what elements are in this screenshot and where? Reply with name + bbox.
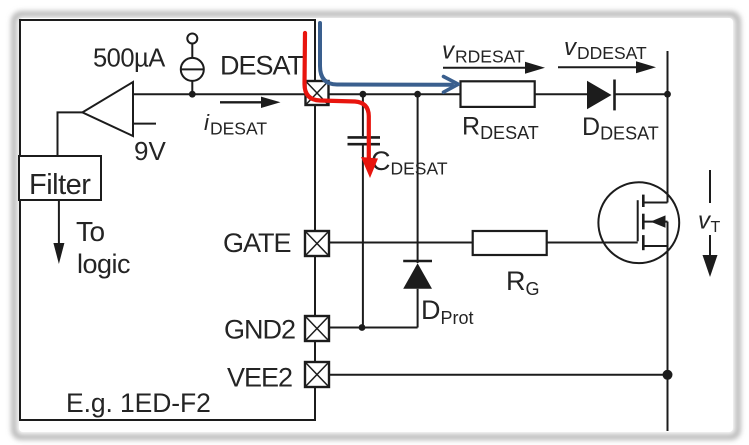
svg-text:500µA: 500µA bbox=[93, 45, 165, 73]
annotation red arrow bbox=[305, 33, 369, 160]
current source 500uA bbox=[181, 34, 204, 95]
pin DESAT bbox=[306, 81, 329, 105]
svg-text:Filter: Filter bbox=[29, 169, 91, 201]
wire: R_G to MOSFET gate bbox=[547, 242, 638, 244]
source stub bbox=[643, 245, 667, 247]
frame top edge bbox=[22, 12, 732, 16]
arrow v_T bbox=[703, 170, 718, 277]
svg-text:logic: logic bbox=[77, 249, 130, 279]
body stub with arrow bbox=[643, 221, 667, 223]
wire: DESAT pin to R_DESAT bbox=[329, 93, 461, 95]
frame left edge darker bbox=[11, 18, 17, 433]
junction dot: C_DESAT to GND2 bbox=[359, 324, 366, 331]
gate bar bbox=[637, 200, 639, 241]
Filter box bbox=[19, 156, 101, 200]
arrow i_DESAT bbox=[220, 97, 281, 108]
arrow v_RDESAT bbox=[443, 62, 545, 74]
resistor R_DESAT bbox=[461, 81, 535, 107]
resistor R_G bbox=[473, 231, 547, 255]
wire: GND2 pin to D_Prot bbox=[329, 327, 418, 329]
svg-text:GATE: GATE bbox=[223, 228, 291, 258]
wire: GATE pin to R_G bbox=[329, 242, 473, 244]
junction dot: C_DESAT node bbox=[360, 91, 367, 98]
svg-text:To: To bbox=[76, 216, 105, 247]
op-amp comparator bbox=[58, 82, 134, 156]
diode D_Prot bbox=[403, 94, 432, 327]
channel dashes bbox=[642, 195, 645, 207]
svg-text:VEE2: VEE2 bbox=[227, 363, 292, 393]
capacitor C_DESAT bbox=[348, 94, 381, 328]
wire: R_DESAT to D_DESAT bbox=[535, 93, 587, 95]
pin GATE bbox=[305, 231, 329, 256]
diode D_DESAT bbox=[587, 80, 615, 111]
wire: D_DESAT to drain rail bbox=[616, 93, 668, 95]
junction dot: current source / comparator node bbox=[189, 91, 196, 98]
junction dot: drain node bbox=[664, 91, 671, 98]
drain rail (collector side) bbox=[667, 51, 669, 203]
svg-text:E.g. 1ED-F2: E.g. 1ED-F2 bbox=[66, 388, 211, 418]
junction dot: VEE2 / source rail bbox=[663, 370, 673, 380]
wire: VEE2 to source rail bbox=[329, 374, 668, 376]
arrow: Filter to logic bbox=[53, 200, 64, 264]
arrow v_DDESAT bbox=[558, 61, 656, 73]
9V reference stub bbox=[133, 123, 156, 125]
annotation red arrowhead bbox=[361, 157, 378, 178]
frame right edge bbox=[733, 18, 740, 434]
source rail lower bbox=[667, 246, 669, 431]
annotation blue arrow bbox=[320, 23, 458, 92]
frame bottom shadow bbox=[22, 434, 734, 440]
pin VEE2 bbox=[305, 362, 329, 387]
wire: comparator output node to DESAT pin bbox=[133, 93, 306, 95]
MOSFET Q1 bbox=[598, 182, 679, 263]
drain stub bbox=[643, 202, 667, 204]
IC box outline 1ED-F2 bbox=[20, 20, 315, 420]
svg-text:GND2: GND2 bbox=[224, 315, 295, 345]
svg-text:DESAT: DESAT bbox=[220, 51, 304, 81]
junction dot: D_Prot node bbox=[414, 91, 421, 98]
svg-text:9V: 9V bbox=[134, 136, 166, 166]
pin GND2 bbox=[305, 316, 329, 341]
